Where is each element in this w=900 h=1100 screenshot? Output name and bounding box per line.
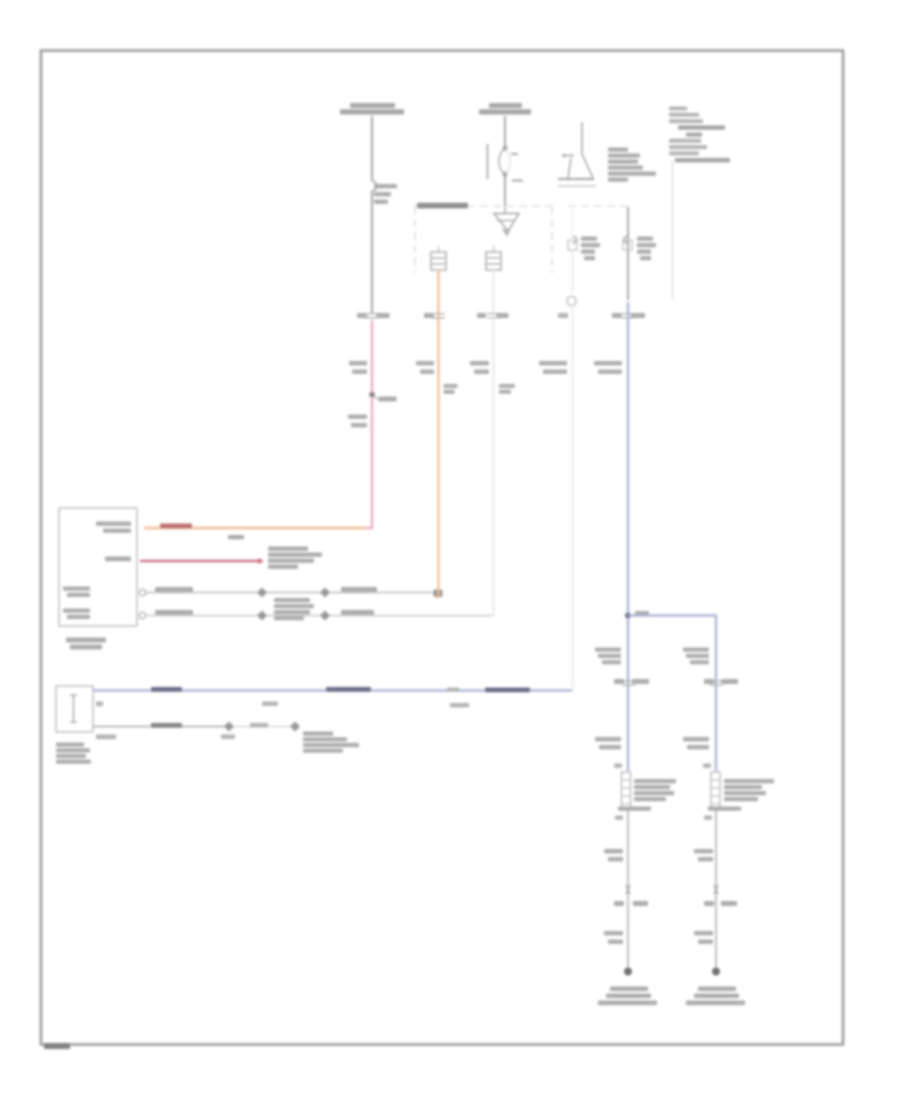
box pin2 text xyxy=(105,557,131,562)
ground G1 label xyxy=(598,987,657,1006)
circuit breaker CB-E xyxy=(627,207,629,300)
splice diamond row3-2 xyxy=(320,588,330,598)
wire label A row2 xyxy=(348,415,367,428)
wire relay feed xyxy=(504,116,506,147)
connector C-C texts xyxy=(477,313,486,318)
node A top label (HOT AT ALL TIMES) xyxy=(340,103,404,115)
footer code text xyxy=(44,1043,70,1049)
note leader line xyxy=(672,160,674,300)
ground destination text xyxy=(303,732,359,753)
box pin4 circle xyxy=(139,612,145,618)
row4 label1 xyxy=(155,610,193,615)
defogger grid element F xyxy=(711,772,720,810)
blue wire labels xyxy=(151,687,182,692)
wire label B xyxy=(416,361,458,394)
grid F name text xyxy=(708,779,774,811)
wire F label (931) xyxy=(694,931,713,944)
box pin3 text xyxy=(63,587,90,591)
wire E label row (737) xyxy=(595,737,621,749)
wire F label (849) xyxy=(694,849,713,861)
wire A pink xyxy=(144,320,372,528)
wire D light vertical xyxy=(572,250,574,293)
wire blue horizontal xyxy=(93,689,572,691)
wire F label row (737) xyxy=(683,737,709,749)
inline connector E (890) xyxy=(626,885,631,894)
wire label A row1 xyxy=(349,361,367,374)
wire E blue vertical xyxy=(627,302,629,771)
wire E label row (648) xyxy=(595,648,621,665)
wire A upper gray xyxy=(371,116,373,314)
box pin4 text xyxy=(63,609,90,613)
sunroof box label xyxy=(56,743,91,764)
small gray texts below blue wire xyxy=(262,702,278,706)
fuse F1 value label xyxy=(374,184,397,204)
ganged switch dashed box xyxy=(415,206,552,273)
connector row E (683) xyxy=(622,681,635,685)
pin 5 number xyxy=(96,735,116,740)
wire F lower gray xyxy=(715,810,717,968)
wire row3 xyxy=(146,592,438,594)
connector C-A ticks xyxy=(365,314,378,318)
connector C-A pin text xyxy=(357,313,367,318)
defogger grid element E xyxy=(622,772,631,810)
mid label xyxy=(250,723,268,727)
wire C light vertical xyxy=(493,270,495,616)
connector C-E texts xyxy=(612,313,622,318)
connector C-B pin text xyxy=(424,313,434,318)
indicator lamp 1 xyxy=(438,246,440,252)
top-right note text block xyxy=(669,107,730,163)
node B top label (HOT IN RUN) xyxy=(479,103,531,115)
pin 6 number xyxy=(96,702,103,707)
wire black lower row xyxy=(93,726,225,728)
connector C-D text xyxy=(558,313,568,318)
ground G2 label xyxy=(686,987,745,1006)
wire E label (849) xyxy=(604,849,623,861)
A/C heater control box xyxy=(59,508,137,626)
splice S1 on wire A xyxy=(369,392,375,398)
switch element inside xyxy=(70,695,77,722)
inline circle on wire D xyxy=(567,296,576,305)
row3/orange junction xyxy=(434,590,443,598)
splice label below xyxy=(221,735,235,739)
black wire label xyxy=(151,723,182,728)
switch wiper triangle xyxy=(494,214,519,232)
wire E lower gray xyxy=(627,810,629,968)
dashed segment 2 xyxy=(568,205,628,207)
grid E name text xyxy=(618,779,676,811)
circuit breaker CB1 xyxy=(487,144,489,179)
box name label xyxy=(66,638,106,643)
wire B orange vertical xyxy=(437,270,439,598)
box pin1 text xyxy=(96,522,131,526)
wire row2 red with arrow xyxy=(140,560,258,562)
row3 label1 xyxy=(155,587,193,592)
ground G2 dot xyxy=(712,968,720,976)
indicator lamp 2 xyxy=(493,246,495,252)
wire label D xyxy=(539,361,567,374)
splice diamond row4-2 xyxy=(320,611,330,621)
row2 destination text xyxy=(268,547,322,569)
row3 label2 xyxy=(341,587,377,592)
ground G1 dot xyxy=(624,968,632,976)
ganged switch label xyxy=(417,203,468,209)
wire label E xyxy=(594,361,622,374)
wire label dark red on horizontal run xyxy=(160,524,192,529)
box pin3 circle xyxy=(139,589,145,595)
relay symbol drawing xyxy=(581,122,583,154)
fuse F1 glyph xyxy=(372,181,377,191)
splice text block xyxy=(274,598,314,620)
wire E label (931) xyxy=(604,931,623,944)
sunroof switch box xyxy=(56,686,93,732)
relay name text xyxy=(608,148,656,182)
wire row4 xyxy=(146,615,494,617)
splice diamond row4-1 xyxy=(257,611,267,621)
branch wire to F xyxy=(628,616,716,772)
splice diamond row3-1 xyxy=(257,588,267,598)
circuit breaker CB-D xyxy=(572,208,574,236)
splice node S301 xyxy=(625,613,631,619)
splice diamond G-2 xyxy=(290,722,300,732)
wire A horizontal orange overlay to box xyxy=(144,527,366,529)
splice diamond G-1 xyxy=(224,722,234,732)
inline connector F (890) xyxy=(714,885,719,894)
wire F label row (648) xyxy=(683,648,709,665)
row4 label2 xyxy=(341,610,374,615)
wire label C xyxy=(470,361,515,394)
connector row F (683) xyxy=(710,681,723,685)
